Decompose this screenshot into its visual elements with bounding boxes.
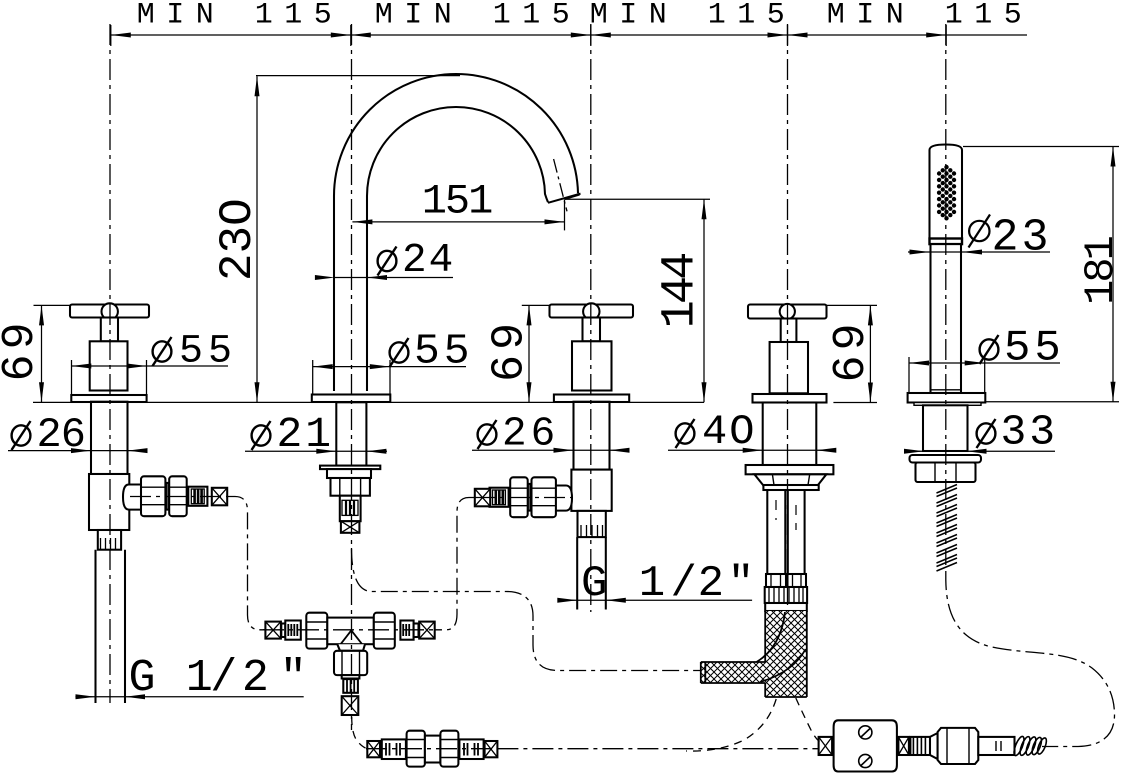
svg-text:55: 55 [1004, 324, 1065, 374]
dim phi55 H line [909, 362, 1060, 364]
dim phi23 H line [908, 251, 1050, 253]
svg-text:23O: 23O [212, 198, 264, 281]
dim phi24 spout line [335, 277, 453, 279]
fitting F1 nut 1 [141, 476, 165, 516]
label G 1/2 V1 [128, 653, 306, 704]
valve V1 threaded tip [98, 530, 121, 550]
svg-text:24: 24 [402, 238, 455, 284]
tee fitting right hatched square [419, 622, 435, 639]
tee fitting right slotted cylinder [400, 621, 413, 640]
spout S riser tube [334, 196, 367, 391]
dim phi55 V1 extension lines [72, 360, 147, 394]
svg-text:MIN 115: MIN 115 [590, 0, 797, 33]
dim 69 V2 extension lines [522, 304, 550, 306]
hose route tee to union U1 [352, 717, 368, 749]
svg-text:151: 151 [422, 178, 492, 226]
svg-text:MIN 115: MIN 115 [137, 0, 344, 33]
dim G12 V2 line [558, 599, 752, 601]
dim 230 line [256, 76, 258, 402]
dim 69 V3 extension lines [827, 305, 878, 402]
label phi23 shower [969, 213, 1052, 264]
union U1 left hatched square [367, 741, 380, 757]
column V3 twin supply tubes [767, 490, 804, 574]
fitting F1 neck [123, 485, 141, 510]
hand shower H head body [930, 145, 963, 239]
dim 144 arrows [702, 199, 707, 402]
spout S mouth cut [548, 194, 581, 203]
label phi24 spout [378, 238, 456, 284]
hand shower H washer [910, 455, 982, 463]
svg-text:181: 181 [1077, 236, 1125, 304]
dim 144 extension lines [565, 198, 710, 200]
valve V1 inlet tube [96, 550, 126, 703]
inline connector C2 barrel with screws [834, 720, 897, 771]
dim 69 V1 extension lines [34, 304, 71, 306]
valve V2 lower stem phi26 [574, 402, 610, 470]
centerline valve V1 [109, 24, 111, 703]
braided hose elbow arm [701, 662, 765, 683]
valve V2 lower body [571, 470, 611, 511]
svg-text:/: / [210, 653, 237, 704]
fitting F2 neck [556, 486, 572, 511]
svg-text:69: 69 [826, 318, 877, 382]
hand shower H escutcheon flange phi55 [908, 393, 986, 405]
dim 151 line [352, 221, 564, 223]
dim 181 arrows [1111, 147, 1116, 402]
dim 69 V2 line [528, 305, 530, 402]
dim 230 arrows [255, 76, 260, 402]
valve V1 lower stem phi26 [91, 402, 128, 474]
fitting F1 nut 2 [169, 476, 187, 516]
svg-text:144: 144 [655, 254, 708, 328]
inline connector C2 threaded cylinder [910, 737, 930, 755]
tee fitting left slotted cylinder [285, 621, 301, 640]
dim phi55 shower extension lines [909, 357, 985, 393]
dim G12 V1 line [75, 696, 303, 698]
valve V2 threaded tip [578, 511, 606, 537]
spout S threaded shank [340, 496, 361, 522]
valve V1 lower body [89, 474, 129, 530]
braided hose vertical run [701, 611, 807, 697]
valve V1 knob circle [102, 303, 118, 319]
svg-text:1: 1 [639, 559, 665, 609]
centerline valve V2 [590, 24, 592, 612]
spout S hex nut [331, 478, 370, 496]
fitting F1 slotted cylinder [188, 487, 207, 506]
dim 181 extension lines [963, 147, 1119, 402]
column V3 lower flange [746, 465, 834, 474]
dim phi21 spout line [245, 450, 387, 452]
dim phi26 V2 line [472, 449, 625, 451]
dim phi26 V1 line [8, 450, 136, 452]
dim 69 V3 line [869, 305, 871, 402]
tee fitting left ring [281, 624, 285, 638]
dim 230 extension lines [256, 75, 460, 77]
svg-text:2: 2 [698, 559, 724, 609]
dim 69 V1 line [41, 305, 43, 402]
union U1 middle body [425, 736, 441, 763]
svg-text:26: 26 [502, 412, 559, 458]
label phi21 spout [252, 410, 335, 459]
centerline spout S [351, 24, 353, 730]
svg-text:21: 21 [277, 410, 335, 459]
dim G12 arrows (outside) [76, 598, 626, 699]
inline connector C2 taper [930, 733, 938, 759]
svg-text:55: 55 [414, 327, 474, 376]
hose route F1 to tee [227, 497, 265, 630]
centerline union U1 axis [366, 748, 498, 750]
dim 181 line [1112, 147, 1114, 402]
svg-text:G: G [128, 653, 155, 704]
hose route spout to braided arm [352, 548, 701, 671]
svg-text:23: 23 [992, 213, 1052, 264]
deck reference line [33, 401, 704, 403]
hose route union U1 to connector C2 [497, 748, 818, 750]
spout S shank tube phi21 [336, 402, 366, 465]
dim chain arrows [111, 33, 946, 38]
inline connector C2 hatched square 2 [898, 737, 909, 755]
inline connector C2 coil spring end [1012, 735, 1048, 756]
tee fitting left hatched square [265, 622, 281, 639]
spout S hatched end square [341, 521, 360, 533]
tee fitting right union nut [374, 613, 395, 649]
label phi26 V2 [478, 412, 560, 458]
svg-text:2: 2 [242, 653, 269, 704]
centerline column V3 [787, 24, 789, 611]
column V3 twin hose nuts [766, 574, 806, 587]
fitting F2 nut 1 [532, 477, 556, 517]
column V3 handle stem [781, 319, 797, 343]
dim 151 arrows [352, 219, 564, 224]
dim 144 line [703, 199, 705, 402]
spout S collar ring [327, 469, 371, 478]
union U1 right slotted cylinder [459, 739, 483, 759]
column V3 collar band [765, 603, 807, 611]
dim 69 arrows [39, 305, 873, 402]
hose route F2 to tee [435, 498, 475, 630]
svg-text:MIN 115: MIN 115 [827, 0, 1034, 33]
hose route hand shower S-curve [946, 571, 1115, 747]
fitting F2 ring [528, 484, 531, 511]
svg-text:33: 33 [1001, 408, 1059, 457]
hand shower H holder body phi33 [923, 405, 968, 451]
dim phi40 V3 line [668, 449, 833, 451]
hand shower H handle [931, 244, 962, 393]
spout S washer [320, 466, 380, 470]
svg-text:": " [280, 653, 307, 704]
fitting F1 hatched end square [212, 488, 227, 506]
tee fitting bottom slotted cylinder [343, 679, 358, 693]
svg-text:/: / [670, 559, 696, 609]
label phi55 shower [980, 324, 1065, 374]
centerline fitting F2 axis [474, 497, 572, 499]
fitting F2 slotted cylinder [490, 488, 509, 507]
column V3 upper body [770, 342, 808, 393]
tee fitting right ring [414, 624, 419, 638]
dim phi33 H line [910, 450, 1055, 452]
spout S escutcheon flange [312, 395, 391, 403]
svg-text:1: 1 [186, 653, 213, 704]
svg-text:69: 69 [485, 318, 536, 382]
column V3 collar ring [763, 485, 818, 490]
dim phi55 spout line [313, 366, 466, 368]
tee fitting body [327, 618, 374, 645]
svg-text:55: 55 [179, 330, 237, 375]
dim 151 extension [564, 199, 566, 230]
svg-text:69: 69 [0, 317, 46, 381]
svg-text:4O: 4O [702, 408, 756, 456]
valve V1 handle stem [101, 318, 118, 342]
hose route braid bottom right [796, 698, 820, 742]
column V3 main column phi40 [763, 403, 817, 466]
tee fitting bottom ring [342, 675, 360, 678]
svg-text:G: G [581, 559, 607, 609]
svg-text:": " [728, 559, 754, 609]
braided hose elbow inner curves [757, 612, 806, 682]
hand shower H threaded rod [937, 485, 958, 572]
tee fitting bottom neck [337, 644, 365, 651]
label phi55 V1 [153, 330, 238, 375]
spout S outlet axis centerline [554, 159, 567, 211]
spout S curved arc [334, 74, 578, 202]
column V3 threaded collar [765, 587, 807, 603]
fitting F2 nut 2 [510, 477, 528, 517]
dim phi55 V1 line [71, 365, 228, 367]
tee fitting bottom hatched square [342, 696, 359, 715]
valve V1 handle crossbar [70, 305, 149, 318]
column V3 hex locknut [754, 474, 826, 485]
dim phi55 spout extension lines [313, 360, 390, 394]
hand shower H hex nut [916, 463, 976, 483]
centerline fitting F1 axis [130, 496, 228, 498]
svg-text:MIN 115: MIN 115 [375, 0, 582, 33]
dim chain tick marks [111, 25, 946, 46]
valve V1 escutcheon flange [71, 395, 146, 402]
inline connector C2 hatched square [819, 737, 833, 755]
valve V2 escutcheon flange [554, 395, 629, 403]
valve V2 handle stem [583, 318, 601, 342]
dim phi55 arrows [71, 361, 984, 370]
fitting F1 ring [166, 483, 169, 510]
valve V2 inlet tube [577, 537, 606, 609]
label G 1/2 V2 [581, 559, 754, 609]
label phi40 V3 [676, 408, 757, 456]
union U1 left nut [407, 731, 425, 767]
union U1 left slotted cylinder [382, 739, 406, 759]
inline connector C2 hex nut [938, 728, 979, 764]
inline connector C2 end cylinder [978, 737, 1014, 755]
hose route braid bottom left [686, 699, 776, 751]
tee fitting left union nut [306, 613, 327, 649]
hand shower H spray dots [937, 165, 956, 221]
svg-text:26: 26 [37, 411, 85, 459]
dim chain MIN115 line [111, 34, 1027, 36]
dim phi26 phi21 phi40 arrows (outside) [71, 250, 987, 454]
union U1 right hatched square [485, 741, 498, 757]
valve V2 upper body [572, 341, 612, 390]
hand shower H joint band [930, 239, 963, 245]
valve V2 handle crossbar [550, 305, 634, 318]
column V3 knob circle [780, 304, 795, 319]
centerline hand shower H [945, 24, 947, 565]
column V3 upper flange [753, 394, 827, 403]
fitting F2 hatched end square [475, 489, 490, 507]
label phi26 V1 [12, 411, 85, 459]
valve V1 upper body [90, 341, 128, 390]
centerline tee axis [263, 629, 436, 631]
column V3 handle crossbar [748, 305, 827, 319]
label phi33 shower [977, 408, 1059, 457]
label phi55 spout [390, 327, 474, 376]
tee fitting bottom union nut [334, 651, 367, 675]
valve V2 knob circle [583, 303, 599, 319]
union U1 right nut [440, 731, 458, 767]
